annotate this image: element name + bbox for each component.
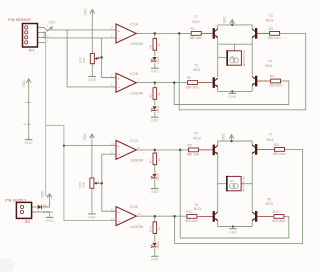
svg-text:GND: GND	[151, 190, 159, 194]
ground chain1	[151, 68, 159, 73]
svg-text:10K: 10K	[82, 58, 86, 63]
junction IC1A out / chain1	[154, 32, 157, 35]
label T3	[269, 14, 273, 18]
supply VCC H-bridge 2	[221, 133, 234, 141]
transistor T7	[252, 144, 257, 155]
svg-text:T5: T5	[194, 132, 198, 136]
svg-text:GND: GND	[229, 230, 237, 234]
svg-text:R6: R6	[148, 94, 152, 98]
svg-text:VCC: VCC	[40, 190, 44, 198]
ground chain4	[151, 256, 159, 261]
transistor T1	[213, 28, 218, 39]
svg-text:T2: T2	[194, 64, 198, 68]
svg-text:1N4004: 1N4004	[43, 210, 54, 214]
label T1 value	[192, 20, 200, 24]
resistor R9	[187, 143, 200, 156]
svg-text:560 ohm: 560 ohm	[190, 36, 203, 40]
LED LED2	[151, 105, 161, 113]
op-amp IC1B	[111, 72, 144, 96]
svg-text:560 ohm: 560 ohm	[273, 152, 286, 156]
svg-text:R1: R1	[190, 27, 194, 31]
wire net GND vertical from JP1 pin 2	[46, 32, 50, 195]
wire chain4 top	[154, 216, 156, 222]
diode D1	[38, 205, 42, 209]
resistor R3	[268, 27, 281, 40]
resistor R12	[272, 210, 285, 223]
wire T2 emitter to gnd rail	[217, 87, 219, 91]
svg-text:JP1: JP1	[29, 48, 35, 52]
wire branch to IC1C+ in	[64, 145, 116, 147]
pin stub T3 base to R3	[257, 32, 270, 34]
junction IC1B out / loop B	[173, 81, 176, 84]
svg-text:GND: GND	[88, 78, 96, 82]
wire chain1 bottom	[154, 63, 156, 68]
ground H-bridge 1	[228, 93, 236, 99]
op-amp IC1A	[111, 23, 144, 47]
wire chain4 bottom	[154, 248, 156, 256]
pin label 4	[25, 100, 27, 104]
wire chain3 mid	[154, 165, 156, 173]
label T6 value	[194, 207, 202, 211]
svg-text:MOTOR DC: MOTOR DC	[242, 49, 246, 66]
resistor R2	[186, 76, 199, 89]
svg-text:R2: R2	[187, 76, 191, 80]
svg-text:R11: R11	[274, 143, 280, 147]
svg-text:R10: R10	[186, 210, 192, 214]
svg-text:M2: M2	[230, 179, 234, 183]
pin stub R1 to T1 base	[201, 32, 212, 34]
label T2	[194, 64, 198, 68]
label T1	[194, 15, 198, 19]
transistor T6	[213, 211, 218, 222]
svg-text:LED1: LED1	[156, 56, 160, 64]
svg-text:VCC: VCC	[83, 133, 87, 141]
wire H1 GND rail	[218, 90, 253, 92]
resistor R10	[185, 210, 198, 223]
ground H-bridge 2	[229, 229, 237, 235]
junction IC1C out / chain3	[154, 149, 157, 152]
svg-text:10K: 10K	[82, 182, 86, 187]
svg-text:13: 13	[111, 217, 114, 221]
wire H1 left column	[217, 38, 219, 77]
svg-text:LED4: LED4	[156, 242, 160, 250]
junction pot1 wiper	[100, 56, 103, 59]
wire H2 right column	[251, 155, 253, 212]
junction IC1B out / chain2	[154, 81, 157, 84]
svg-text:9013: 9013	[266, 202, 274, 206]
label T7	[268, 133, 272, 137]
ground under pot R16	[88, 214, 96, 220]
svg-text:R9: R9	[188, 143, 192, 147]
svg-text:10: 10	[111, 142, 114, 146]
wire threshold vertical pot1 wiper	[102, 38, 116, 78]
wire loop A	[179, 33, 306, 109]
wire chain1 mid	[154, 50, 156, 56]
svg-text:JP2: JP2	[24, 220, 30, 224]
svg-text:MOTOR DC: MOTOR DC	[242, 175, 246, 192]
wire JP1 pin 4 stub	[28, 41, 46, 43]
junction IC1D out / chain4	[154, 215, 157, 218]
wire T8 emitter to gnd rail	[251, 221, 253, 227]
svg-text:LM324N: LM324N	[130, 91, 143, 95]
wire IC1D out to R10	[136, 215, 187, 217]
resistor R6	[148, 88, 160, 100]
svg-text:560 ohm: 560 ohm	[187, 153, 200, 157]
pin tick IC1P pin 11	[27, 123, 31, 125]
wire loop A2	[175, 149, 303, 243]
label T4	[268, 59, 272, 63]
wire sensor2 to IC1A- in	[46, 37, 116, 39]
junction H2 GND	[232, 225, 234, 227]
svg-text:GND: GND	[46, 219, 54, 223]
label JP2	[24, 220, 30, 224]
wire motor2 pin2	[241, 183, 252, 185]
wire IC1C out to R9	[136, 149, 189, 151]
LED LED1	[151, 56, 161, 64]
wire H1 GND stub	[231, 91, 233, 93]
wire IC1C- in	[102, 153, 116, 155]
svg-text:GND: GND	[88, 216, 96, 220]
wire sensor1 to IC1A+ in	[47, 29, 117, 31]
wire pot1 wiper stub	[96, 56, 101, 58]
op-amp IC1D	[111, 205, 144, 229]
supply VCC H-bridge 1	[223, 15, 235, 25]
svg-text:560 ohm: 560 ohm	[185, 219, 198, 223]
svg-text:M1: M1	[230, 55, 234, 59]
junction H1 GND	[231, 90, 233, 92]
wire pot2 wiper stub	[96, 182, 102, 184]
wire H2 left column	[217, 155, 219, 212]
wire H2 GND stub	[232, 227, 234, 229]
wire JP2 pin2 stub	[28, 212, 50, 217]
supply VCC near JP2	[40, 190, 52, 200]
label T8	[267, 197, 271, 201]
transistor T2	[213, 77, 218, 88]
svg-text:LED3: LED3	[156, 173, 160, 181]
wire chain2 top	[154, 83, 156, 88]
supply VCC IC1P	[22, 79, 31, 88]
svg-text:1k: 1k	[157, 226, 161, 230]
wire D1 anode	[37, 206, 38, 208]
svg-text:LM324N: LM324N	[130, 42, 143, 46]
pin stub T4 base to R4	[257, 80, 271, 82]
svg-text:1k: 1k	[157, 92, 161, 96]
pin label 11	[23, 122, 26, 126]
svg-text:GND: GND	[151, 119, 159, 123]
svg-text:GND: GND	[43, 31, 47, 39]
wire chain3 top	[154, 150, 156, 153]
resistor R4	[269, 75, 282, 88]
svg-text:9013: 9013	[265, 64, 273, 68]
svg-text:14: 14	[138, 212, 141, 216]
net label GND	[43, 31, 47, 39]
svg-text:R13: R13	[148, 226, 152, 232]
wire JP1 pin 1 stub	[28, 27, 47, 30]
pin stub R2 to T2 base	[198, 82, 213, 84]
op-amp IC1C	[111, 139, 144, 163]
svg-text:T1: T1	[194, 15, 198, 19]
wire sensor1 branch down to IC1B-	[67, 30, 116, 87]
label PIN SUPPLY	[5, 199, 27, 203]
supply VCC arrow near JP1	[47, 26, 53, 31]
ground IC1P	[25, 140, 33, 146]
wire IC1P supply line	[28, 84, 30, 140]
wire VCC to pot R15 top	[91, 14, 93, 53]
junction H2 VCC	[230, 140, 233, 143]
wire pot R15 bottom to GND	[91, 64, 93, 77]
wire chain2 mid	[154, 99, 156, 105]
svg-text:1k: 1k	[157, 158, 161, 162]
wire JP2 pin1 stub	[28, 206, 37, 208]
label T7 value	[266, 138, 274, 142]
svg-text:T3: T3	[269, 14, 273, 18]
wire chain4 mid	[154, 234, 156, 242]
svg-text:9013: 9013	[266, 19, 274, 23]
label D1	[43, 203, 47, 207]
svg-text:12: 12	[111, 207, 114, 211]
svg-text:T4: T4	[268, 59, 272, 63]
svg-text:9013: 9013	[192, 20, 200, 24]
svg-text:560 ohm: 560 ohm	[272, 219, 285, 223]
junction sensor3 link	[63, 145, 65, 147]
wire motor2 pin1	[218, 183, 227, 185]
svg-text:560 ohm: 560 ohm	[269, 84, 282, 88]
svg-text:GND: GND	[151, 258, 159, 262]
ground near JP2	[46, 217, 54, 223]
junction IC1A out / loop A	[178, 32, 181, 35]
motor M1	[227, 49, 246, 66]
pin stub R10 to T6 base	[197, 215, 213, 217]
wire H2 GND rail	[218, 226, 253, 228]
svg-text:9013: 9013	[193, 68, 201, 72]
svg-text:1k: 1k	[157, 43, 161, 47]
svg-text:IC1D: IC1D	[130, 205, 138, 209]
wire sensor3 vertical to IC1C+ and IC1D-	[64, 125, 116, 220]
trimmer R15	[79, 50, 100, 68]
svg-text:VCC: VCC	[22, 80, 26, 88]
pin stub T8 base to R12	[257, 215, 274, 217]
svg-text:PIN SENSOR: PIN SENSOR	[8, 18, 31, 22]
transistor T5	[213, 145, 218, 156]
wire IC1B out to R2	[136, 82, 187, 84]
svg-text:9013: 9013	[194, 207, 202, 211]
pin stub R9 to T5 base	[198, 149, 212, 151]
pin stub T7 base to R11	[257, 148, 274, 150]
transistor T8	[252, 211, 257, 222]
svg-text:IC1C: IC1C	[130, 139, 138, 143]
wire motor1 pin1 stub	[218, 57, 228, 59]
label T5	[194, 132, 198, 136]
LED LED4	[151, 242, 161, 250]
resistor R5	[148, 39, 160, 51]
svg-text:R5: R5	[148, 44, 152, 48]
svg-text:LED2: LED2	[156, 105, 160, 113]
svg-text:T7: T7	[268, 133, 272, 137]
label T5 value	[193, 136, 201, 140]
resistor R7	[148, 153, 160, 165]
LED LED3	[151, 173, 161, 181]
connector JP1 PIN SENSOR	[23, 24, 50, 48]
motor M2	[227, 175, 246, 192]
svg-text:R7: R7	[148, 159, 152, 163]
wire loop B	[174, 81, 289, 105]
svg-text:D1: D1	[43, 203, 47, 207]
supply VCC above pot R16	[83, 133, 94, 141]
svg-text:9013: 9013	[193, 136, 201, 140]
svg-text:560 ohm: 560 ohm	[268, 36, 281, 40]
wire T6 emitter to gnd rail	[217, 221, 219, 227]
wire loop B2	[180, 150, 289, 238]
wire motor1 rail	[218, 43, 253, 45]
junction IC1C out / loop B2	[179, 149, 182, 152]
wire H1 VCC rail	[218, 25, 253, 30]
wire IC1A out to R1	[136, 32, 191, 34]
wire H1 right column	[251, 38, 253, 76]
svg-text:VCC: VCC	[49, 21, 56, 25]
wire pot R16 bottom to GND	[91, 188, 93, 213]
transistor T3	[252, 28, 257, 39]
wire sensor3 link	[46, 124, 64, 126]
wire VCC to pot R16 top	[91, 140, 93, 178]
wire D1 cathode to VCC	[42, 199, 49, 207]
svg-text:R3: R3	[269, 27, 273, 31]
wire chain3 bottom	[154, 179, 156, 188]
wire JP1 pin 2 stub	[28, 31, 46, 33]
svg-text:LM324N: LM324N	[130, 225, 143, 229]
svg-text:PIN SUPPLY: PIN SUPPLY	[5, 199, 27, 203]
svg-text:560 ohm: 560 ohm	[186, 85, 199, 89]
wire chain1 top	[154, 33, 156, 38]
transistor T4	[252, 76, 257, 87]
resistor R1	[190, 27, 203, 40]
wire chain2 bottom	[154, 112, 156, 117]
label T8 value	[266, 202, 274, 206]
svg-text:VCC: VCC	[223, 15, 227, 23]
svg-text:LM324N: LM324N	[130, 159, 143, 163]
wire threshold vertical pot2 wiper	[102, 154, 116, 211]
resistor R11	[273, 143, 286, 156]
label PIN SENSOR	[8, 18, 31, 22]
svg-text:T8: T8	[267, 197, 271, 201]
wire motor1 pin2 stub	[233, 44, 235, 51]
label JP1	[29, 48, 35, 52]
ground under pot R15	[88, 77, 96, 83]
label T4 value	[265, 64, 273, 68]
svg-text:GND: GND	[228, 95, 236, 99]
svg-text:IC1A: IC1A	[130, 23, 138, 27]
connector JP2 PIN SUPPLY	[16, 202, 39, 218]
pin tick IC1P pin 4	[27, 102, 31, 104]
junction IC1D out / loop A2	[173, 215, 176, 218]
svg-text:IC1B: IC1B	[130, 72, 138, 76]
label T2 value	[193, 68, 201, 72]
svg-text:9013: 9013	[266, 138, 274, 142]
resistor R13	[148, 222, 160, 234]
wire T4 emitter to gnd rail	[251, 85, 253, 91]
junction pot2 wiper	[101, 182, 104, 185]
label T3 value	[266, 19, 274, 23]
label D1 value	[43, 210, 54, 214]
junction H1 VCC	[231, 24, 234, 27]
trimmer R16	[78, 174, 99, 192]
svg-text:VCC: VCC	[84, 8, 88, 16]
svg-text:R12: R12	[273, 210, 279, 214]
ground chain3	[151, 189, 159, 194]
svg-text:R4: R4	[270, 75, 274, 79]
supply VCC above pot R15	[84, 8, 95, 16]
ground chain2	[151, 117, 159, 122]
label T6	[194, 203, 198, 207]
wire JP1 pin 3 stub	[28, 36, 46, 39]
wire H2 VCC rail	[218, 141, 253, 146]
svg-text:GND: GND	[151, 70, 159, 74]
label VCC near JP1	[49, 21, 56, 25]
svg-text:VCC: VCC	[221, 133, 225, 141]
svg-text:GND: GND	[25, 141, 33, 145]
